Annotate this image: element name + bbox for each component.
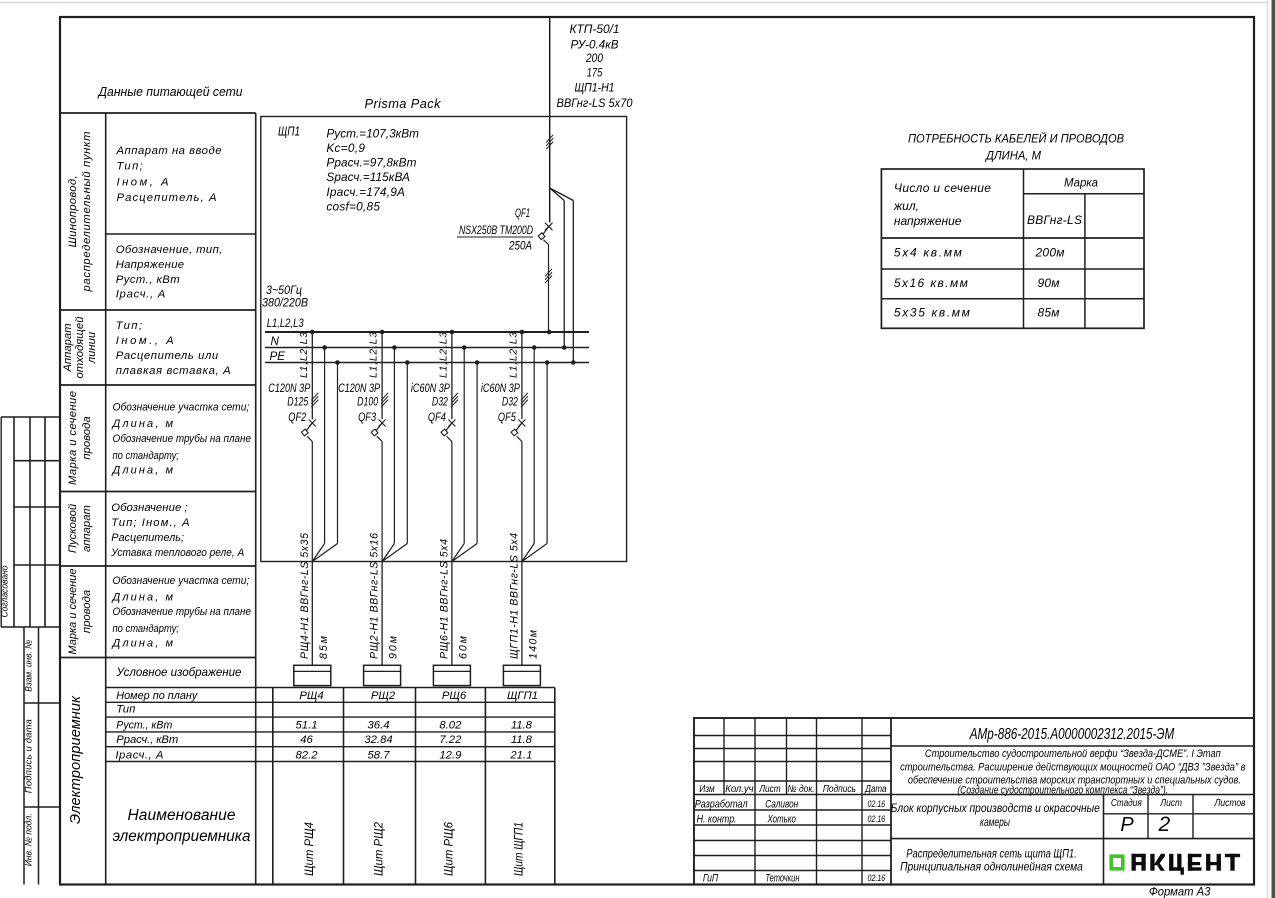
label 3~50Гц 380/220В <box>262 284 308 310</box>
feeder 3 outgoing cable <box>451 562 453 666</box>
panel symbol box 3 <box>433 665 470 685</box>
incoming supply wire <box>549 17 551 188</box>
cell text: Обозначение участка сети (2) <box>111 575 252 650</box>
cable count mark below QF1 <box>545 269 552 277</box>
svg-text:5х16 кв.мм: 5х16 кв.мм <box>894 276 968 290</box>
svg-text:ЩП1-Н1: ЩП1-Н1 <box>575 81 615 95</box>
svg-text:QF2: QF2 <box>288 411 306 424</box>
row label Марка и сечение провода (1) <box>67 391 93 485</box>
svg-text:провода: провода <box>81 416 93 459</box>
svg-text:Н. контр.: Н. контр. <box>697 814 737 826</box>
svg-text:82.2: 82.2 <box>296 749 319 761</box>
junction feeder 3 L <box>450 330 455 335</box>
junction incoming L <box>547 330 552 335</box>
feeder 2 wire below breaker <box>381 442 383 562</box>
row 5х16 <box>894 276 1060 290</box>
cell text: Обозначение, тип <box>116 244 223 301</box>
circuit breaker QF5 <box>511 420 525 442</box>
svg-text:85м: 85м <box>1038 306 1060 320</box>
svg-text:Шинопровод,: Шинопровод, <box>67 176 79 248</box>
svg-text:плавкая вставка, А: плавкая вставка, А <box>116 365 231 377</box>
svg-text:Подпись и дата: Подпись и дата <box>24 719 34 793</box>
cable count mark feeder 3 <box>451 393 458 401</box>
svg-text:Prisma Pack: Prisma Pack <box>365 96 442 111</box>
svg-text:ЩП1: ЩП1 <box>278 124 300 139</box>
svg-text:Щит РЩ2: Щит РЩ2 <box>372 822 386 876</box>
signature row ГиП <box>703 872 885 884</box>
svg-text:C120N 3P: C120N 3P <box>268 382 310 395</box>
svg-text:Щит РЩ6: Щит РЩ6 <box>441 822 455 876</box>
svg-text:Аппарат на вводе: Аппарат на вводе <box>116 145 222 157</box>
svg-text:Руст.=107,3кВт: Руст.=107,3кВт <box>326 127 419 141</box>
svg-text:N: N <box>271 335 280 348</box>
svg-text:РЩ2-Н1 ВВГнг-LS 5х16: РЩ2-Н1 ВВГнг-LS 5х16 <box>369 533 381 659</box>
PE branch wire <box>550 188 574 363</box>
title block header labels <box>699 784 886 795</box>
svg-text:аппарат: аппарат <box>81 505 93 552</box>
feeder 2 outgoing cable <box>381 562 383 666</box>
row 5х4 <box>894 246 1065 260</box>
svg-text:Обозначение трубы на плане: Обозначение трубы на плане <box>113 433 252 445</box>
svg-text:Инв. № подл.: Инв. № подл. <box>24 813 34 866</box>
svg-text:L1,L2,L3: L1,L2,L3 <box>508 332 519 378</box>
logo green square <box>1111 856 1123 869</box>
title block outer frame <box>694 718 1254 885</box>
junction feeder 3 PE <box>475 360 480 365</box>
svg-text:КТП-50/1: КТП-50/1 <box>570 22 620 36</box>
junction feeder 2 N <box>392 345 397 350</box>
cell text: Обозначение участка сети (1) <box>111 402 252 477</box>
svg-text:отходящей: отходящей <box>74 316 86 379</box>
feeder 4 PE wire <box>522 363 547 562</box>
bus PE <box>265 362 589 364</box>
feeder 1 wire below breaker <box>311 442 313 562</box>
bus L1,L2,L3 <box>265 331 589 333</box>
svg-text:Расцепитель, А: Расцепитель, А <box>117 192 217 204</box>
junction feeder 2 PE <box>405 360 410 365</box>
svg-text:140м: 140м <box>527 629 539 659</box>
svg-text:Sрасч.=115кВА: Sрасч.=115кВА <box>326 170 410 184</box>
consumer table values <box>296 690 539 761</box>
cell text: Наименование электроприемника <box>113 807 251 845</box>
svg-text:58.7: 58.7 <box>368 749 391 761</box>
svg-text:Расцепитель или: Расцепитель или <box>116 350 219 362</box>
svg-text:Листов: Листов <box>1214 798 1246 809</box>
svg-text:Условное изображение: Условное изображение <box>116 666 243 679</box>
svg-text:Номер по плану: Номер по плану <box>116 690 198 702</box>
svg-text:Формат А3: Формат А3 <box>1149 884 1211 898</box>
svg-text:Лист: Лист <box>759 784 781 795</box>
svg-text:Дата: Дата <box>865 784 887 795</box>
svg-text:Iрасч., А: Iрасч., А <box>115 749 163 761</box>
junction feeder 4 N <box>532 345 537 350</box>
panel parameters text <box>326 127 419 214</box>
svg-text:2: 2 <box>1157 813 1170 836</box>
svg-text:РЩ6: РЩ6 <box>442 690 467 702</box>
svg-text:ЩГП1: ЩГП1 <box>507 690 538 702</box>
cell text: Тип; Iном <box>116 320 231 377</box>
svg-text:Подпись: Подпись <box>823 784 856 795</box>
svg-text:ПОТРЕБНОСТЬ КАБЕЛЕЙ И ПРОВОДОВ: ПОТРЕБНОСТЬ КАБЕЛЕЙ И ПРОВОДОВ <box>908 130 1124 146</box>
junction incoming PE <box>571 360 576 365</box>
svg-text:Щит ЩГП1: Щит ЩГП1 <box>511 822 525 876</box>
cable demand table title <box>908 130 1124 163</box>
panel symbol box 1 <box>294 665 331 685</box>
svg-text:12.9: 12.9 <box>439 749 462 761</box>
title block grid <box>694 718 1254 885</box>
svg-text:№ док.: № док. <box>788 784 815 795</box>
svg-text:3~50Гц: 3~50Гц <box>266 284 302 297</box>
svg-text:ВВГнг-LS 5х70: ВВГнг-LS 5х70 <box>557 96 633 110</box>
svg-text:Хотько: Хотько <box>767 814 796 826</box>
svg-text:Разработал: Разработал <box>695 799 748 811</box>
svg-text:5х35 кв.мм: 5х35 кв.мм <box>894 306 970 320</box>
panel symbol box 2 <box>364 665 401 685</box>
svg-text:Наименование: Наименование <box>128 807 236 824</box>
svg-text:Руст., кВт: Руст., кВт <box>116 719 172 731</box>
svg-text:Р: Р <box>1120 814 1134 836</box>
stage header <box>1111 798 1246 809</box>
svg-text:200: 200 <box>585 51 603 65</box>
feeder 3 N wire <box>452 348 464 562</box>
svg-text:Марка и сечение: Марка и сечение <box>67 569 79 655</box>
cable count mark feeder 4 <box>521 393 528 401</box>
svg-text:Напряжение: Напряжение <box>116 259 184 271</box>
svg-text:Тип: Тип <box>116 704 135 716</box>
svg-text:Уставка теплового реле, А: Уставка теплового реле, А <box>110 547 244 559</box>
junction feeder 4 L <box>520 330 525 335</box>
svg-text:D125: D125 <box>287 396 308 409</box>
svg-text:по стандарту;: по стандарту; <box>113 450 179 462</box>
svg-text:строительства. Расширение дейс: строительства. Расширение действующих мо… <box>900 761 1246 773</box>
cell text: Пусковой аппарат desc <box>110 502 244 559</box>
svg-text:Щит РЩ4: Щит РЩ4 <box>302 822 316 876</box>
svg-text:Обозначение трубы на плане: Обозначение трубы на плане <box>113 606 252 618</box>
feeder 1 N wire <box>312 348 324 562</box>
label NSX250B TM200D <box>457 223 533 237</box>
svg-text:Блок корпусных производств и о: Блок корпусных производств и окрасочные <box>891 803 1100 815</box>
svg-text:D100: D100 <box>357 396 378 409</box>
svg-text:51.1: 51.1 <box>296 719 318 731</box>
feeder 4 N wire <box>522 348 534 562</box>
junction feeder 1 L <box>310 330 315 335</box>
sidebar box Взам. инв. № <box>24 627 61 885</box>
svg-text:Взам. инв. №: Взам. инв. № <box>24 640 34 692</box>
header Число и сечение жил, напряжение <box>893 181 991 228</box>
svg-text:РУ-0.4кВ: РУ-0.4кВ <box>571 38 619 52</box>
svg-text:Тип;: Тип; <box>116 320 142 332</box>
feeder 4 outgoing cable <box>521 562 523 666</box>
svg-text:5х4 кв.мм: 5х4 кв.мм <box>894 246 962 260</box>
svg-text:Kc=0,9: Kc=0,9 <box>326 141 365 155</box>
feeder 1 outgoing cable <box>311 562 313 666</box>
feeder 2 PE wire <box>382 363 407 562</box>
svg-text:распределительный пункт: распределительный пункт <box>81 132 93 293</box>
svg-text:Iном, А: Iном, А <box>117 176 169 188</box>
signature row Н. контр. <box>697 814 886 826</box>
svg-text:Обозначение участка сети;: Обозначение участка сети; <box>113 402 250 414</box>
Prisma Pack enclosure box <box>261 117 627 562</box>
svg-text:7.22: 7.22 <box>439 734 462 746</box>
svg-text:C120N 3P: C120N 3P <box>338 382 380 395</box>
svg-text:D32: D32 <box>502 396 518 409</box>
svg-text:Iрасч.=174,9А: Iрасч.=174,9А <box>326 185 405 199</box>
svg-text:QF5: QF5 <box>498 411 516 424</box>
approval grid (Согласовано block) <box>1 417 60 627</box>
svg-text:ВВГнг-LS: ВВГнг-LS <box>1027 213 1082 227</box>
svg-text:90м: 90м <box>1038 276 1060 290</box>
svg-text:по стандарту;: по стандарту; <box>113 623 179 635</box>
svg-text:cosf=0,85: cosf=0,85 <box>326 200 380 214</box>
circuit breaker QF2 <box>301 420 315 442</box>
svg-text:02.16: 02.16 <box>868 873 886 883</box>
incoming feeder annotation КТП-50/1 <box>557 22 633 110</box>
cable count mark feeder 1 <box>311 393 318 401</box>
svg-text:L1,L2,L3: L1,L2,L3 <box>267 317 304 330</box>
svg-text:85м: 85м <box>318 635 330 659</box>
svg-text:жил,: жил, <box>893 199 919 213</box>
svg-text:Тип; Iном., А: Тип; Iном., А <box>111 517 189 529</box>
svg-text:Согласовано: Согласовано <box>0 566 10 618</box>
svg-text:Тип;: Тип; <box>117 161 143 173</box>
svg-text:Обозначение участка сети;: Обозначение участка сети; <box>113 575 250 587</box>
svg-text:Электроприемник: Электроприемник <box>68 695 84 824</box>
row label Аппарат отходящей линии <box>62 316 98 379</box>
svg-text:46: 46 <box>300 734 313 746</box>
svg-text:250А: 250А <box>508 239 532 253</box>
project description <box>900 748 1246 796</box>
svg-text:РЩ4: РЩ4 <box>299 690 323 702</box>
row label Пусковой аппарат <box>67 503 93 553</box>
svg-text:АМр-886-2015.А0000002312.2015-: АМр-886-2015.А0000002312.2015-ЭМ <box>969 726 1174 743</box>
row label Шинопровод, распределительный пункт <box>67 132 93 293</box>
feeder 3 wire below breaker <box>451 442 453 562</box>
svg-text:Теточкин: Теточкин <box>765 872 799 884</box>
sidebar box Подпись и дата <box>24 719 61 807</box>
N branch wire <box>550 188 565 348</box>
svg-text:Расцепитель;: Расцепитель; <box>111 532 184 544</box>
circuit breaker QF1 <box>538 188 552 332</box>
circuit breaker QF3 <box>371 420 385 442</box>
svg-text:линии: линии <box>86 331 98 364</box>
feeder 1 PE wire <box>312 363 337 562</box>
panel symbol box 4 <box>503 665 540 685</box>
feeder 2 N wire <box>382 348 394 562</box>
svg-text:36.4: 36.4 <box>368 719 390 731</box>
circuit breaker QF4 <box>441 420 455 442</box>
svg-text:ДЛИНА, М: ДЛИНА, М <box>984 149 1042 163</box>
svg-text:(Создание судостроительного ко: (Создание судостроительного комплекса “З… <box>957 784 1168 796</box>
svg-text:Строительство судостроительной: Строительство судостроительной верфи “Зв… <box>925 748 1221 760</box>
svg-text:175: 175 <box>587 65 603 79</box>
svg-text:Марка: Марка <box>1064 176 1098 190</box>
svg-text:iC60N 3P: iC60N 3P <box>411 382 450 395</box>
svg-text:Принципиальная однолинейная сх: Принципиальная однолинейная схема <box>900 860 1083 874</box>
svg-text:Обозначение, тип,: Обозначение, тип, <box>116 244 223 256</box>
cell text: Аппарат на вводе <box>116 145 222 204</box>
junction feeder 1 N <box>322 345 327 350</box>
bus N <box>265 347 589 349</box>
svg-text:Кол.уч: Кол.уч <box>725 784 754 795</box>
svg-text:Изм: Изм <box>699 784 714 795</box>
svg-text:ЩГП1-Н1 ВВГнг-LS 5х4: ЩГП1-Н1 ВВГнг-LS 5х4 <box>508 533 520 659</box>
svg-text:ГиП: ГиП <box>703 872 718 884</box>
logo text АКЦЕНТ <box>1132 854 1241 875</box>
svg-text:Лист: Лист <box>1160 798 1183 809</box>
svg-text:PE: PE <box>270 350 286 363</box>
svg-text:Руст., кВт: Руст., кВт <box>116 274 180 286</box>
svg-text:электроприемника: электроприемника <box>113 828 251 845</box>
svg-text:90м: 90м <box>388 635 400 659</box>
junction feeder 2 L <box>380 330 385 335</box>
svg-text:L1,L2,L3: L1,L2,L3 <box>369 332 380 378</box>
svg-text:D32: D32 <box>432 396 448 409</box>
svg-text:NSX250B TM200D: NSX250B TM200D <box>459 223 533 237</box>
junction incoming N <box>562 345 567 350</box>
feeder 1 phase wire from bus to breaker <box>311 332 313 419</box>
svg-text:Число и сечение: Число и сечение <box>894 181 991 195</box>
svg-text:Обозначение ;: Обозначение ; <box>111 502 188 514</box>
parameter table grid <box>60 113 555 885</box>
feeder 2 phase wire from bus to breaker <box>381 332 383 419</box>
svg-text:QF1: QF1 <box>515 206 530 220</box>
cable count mark feeder 2 <box>381 393 388 401</box>
drawing title <box>900 846 1083 873</box>
row label Марка и сечение провода (2) <box>67 569 93 655</box>
svg-text:напряжение: напряжение <box>894 214 962 228</box>
feeder 3 phase wire from bus to breaker <box>451 332 453 419</box>
svg-text:02.16: 02.16 <box>868 799 886 809</box>
svg-text:L1,L2,L3: L1,L2,L3 <box>299 332 310 378</box>
svg-text:QF3: QF3 <box>358 411 376 424</box>
svg-text:11.8: 11.8 <box>511 719 533 731</box>
svg-text:L1,L2,L3: L1,L2,L3 <box>438 332 449 378</box>
cable count mark on incoming wire <box>546 135 553 143</box>
svg-text:380/220В: 380/220В <box>262 297 308 310</box>
svg-text:Распределительная сеть щита ЩП: Распределительная сеть щита ЩП1. <box>906 846 1076 860</box>
svg-text:Пусковой: Пусковой <box>67 503 79 553</box>
svg-text:Данные питающей сети: Данные питающей сети <box>97 84 243 99</box>
svg-text:Iрасч., А: Iрасч., А <box>116 289 166 301</box>
junction feeder 1 PE <box>335 360 340 365</box>
svg-text:провода: провода <box>81 590 93 633</box>
feeder 4 phase wire from bus to breaker <box>521 332 523 419</box>
svg-text:Марка и сечение: Марка и сечение <box>67 391 79 485</box>
signature row Разработал <box>695 799 886 811</box>
feeder 4 wire below breaker <box>521 442 523 562</box>
svg-text:Аппарат: Аппарат <box>62 323 74 372</box>
svg-text:камеры: камеры <box>980 817 1010 829</box>
svg-text:Стадия: Стадия <box>1111 798 1142 809</box>
svg-text:200м: 200м <box>1035 246 1065 260</box>
svg-text:iC60N 3P: iC60N 3P <box>481 382 520 395</box>
row 5х35 <box>894 306 1060 320</box>
svg-text:Саливон: Саливон <box>765 799 798 811</box>
svg-text:11.8: 11.8 <box>511 734 533 746</box>
svg-text:QF4: QF4 <box>428 411 446 424</box>
svg-text:РЩ2: РЩ2 <box>371 690 396 702</box>
svg-text:РЩ4-Н1 ВВГнг-LS 5х35: РЩ4-Н1 ВВГнг-LS 5х35 <box>299 533 311 659</box>
cable demand table grid <box>881 169 1144 328</box>
row labels of consumer table <box>115 690 198 761</box>
junction feeder 4 PE <box>545 360 550 365</box>
svg-text:32.84: 32.84 <box>364 734 392 746</box>
svg-text:60м: 60м <box>457 635 469 659</box>
svg-text:02.16: 02.16 <box>868 814 886 824</box>
svg-text:21.1: 21.1 <box>509 749 532 761</box>
object name Блок корпусных производств <box>891 803 1100 829</box>
junction feeder 3 N <box>462 345 467 350</box>
svg-text:РЩ6-Н1 ВВГнг-LS 5х4: РЩ6-Н1 ВВГнг-LS 5х4 <box>438 539 450 659</box>
feeder 3 PE wire <box>452 363 477 562</box>
svg-text:Ррасч., кВт: Ррасч., кВт <box>116 734 178 746</box>
svg-text:Ррасч.=97,8кВт: Ррасч.=97,8кВт <box>326 156 416 170</box>
svg-text:8.02: 8.02 <box>439 719 462 731</box>
